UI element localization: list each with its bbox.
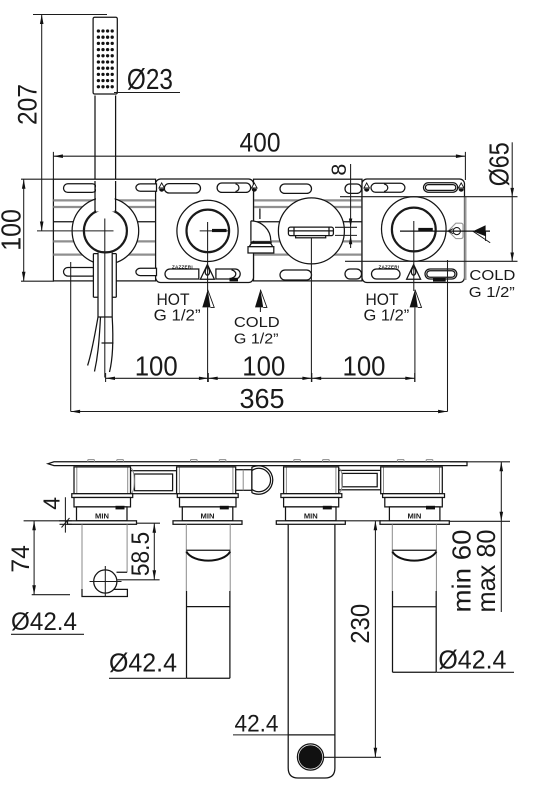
bottom slot H inner contour	[427, 271, 455, 277]
hose elbow plan	[235, 470, 252, 491]
dimension D23 leader	[114, 92, 180, 94]
top slot E	[280, 184, 312, 193]
hose end strands	[88, 317, 114, 372]
svg-text:G 1/2”: G 1/2”	[364, 308, 410, 325]
svg-text:Ø65: Ø65	[484, 142, 515, 186]
dimension D42.4 mid leader	[109, 677, 186, 679]
zazzeri mark circle 4	[418, 228, 433, 231]
dimension 365 arrows	[71, 410, 80, 413]
dimension 207 extension line top	[33, 14, 107, 16]
svg-text:100: 100	[135, 351, 178, 382]
svg-text:100: 100	[242, 351, 285, 382]
bottom slot F	[345, 269, 362, 279]
circle 3 center line	[310, 238, 312, 382]
up-arrow mark 3	[364, 183, 370, 192]
svg-text:G 1/2”: G 1/2”	[469, 285, 515, 301]
flow arrow line	[400, 230, 490, 232]
svg-text:ZAZZERI: ZAZZERI	[172, 264, 193, 269]
svg-text:Ø42.4: Ø42.4	[11, 608, 77, 636]
svg-text:8: 8	[327, 164, 351, 176]
dimension min60 max80 ext lines	[449, 462, 510, 522]
dimension 8 arrows	[349, 219, 352, 228]
COLD arrow mid	[255, 290, 263, 308]
dimension 400 extension lines	[53, 152, 465, 180]
valve body 4	[381, 467, 443, 494]
svg-text:365: 365	[240, 383, 285, 414]
HOT arrow left	[202, 290, 210, 308]
dimension 365 line	[71, 411, 448, 413]
top slot H	[424, 183, 458, 192]
shower handle over plate	[96, 182, 115, 202]
dimension 74 ext lines	[24, 521, 70, 595]
dimension 365 ext lines	[71, 260, 448, 412]
shower head nozzle dots	[97, 29, 114, 88]
stub marks above bar valve2	[191, 460, 226, 462]
dimension 400 arrows	[53, 154, 63, 158]
dimension 8 ext lines	[335, 227, 357, 235]
svg-text:MIN: MIN	[407, 512, 421, 521]
cylinder 4 handle recess	[392, 549, 436, 551]
dimension 8 line	[350, 164, 352, 248]
top slot C	[164, 184, 200, 193]
shower handle through ring	[96, 196, 115, 212]
valve body 3	[284, 467, 339, 494]
top slot D arc divider	[236, 184, 239, 192]
bottom slot D	[216, 269, 240, 279]
valve body inner wall lines	[77, 468, 440, 494]
wall plate bar	[48, 462, 467, 466]
svg-text:Ø42.4: Ø42.4	[438, 647, 506, 675]
valve circle 1 outer	[72, 198, 139, 265]
cylinder 3 cap joint	[288, 734, 335, 736]
dimension 230 line	[374, 521, 376, 758]
HOT arrow right	[410, 290, 418, 308]
dimension 100x3 line	[106, 377, 415, 379]
up-arrow mark 2	[252, 183, 258, 192]
funnel symbol square 4	[407, 265, 421, 280]
dimension min60 max80 arrows	[500, 462, 504, 472]
svg-text:400: 400	[240, 127, 281, 157]
funnel symbol square 2	[200, 265, 214, 280]
top slot G arc divider	[384, 184, 388, 192]
dimension 100 left arrows	[22, 179, 26, 189]
svg-text:MIN: MIN	[201, 512, 215, 521]
hand shower hose nut	[93, 254, 116, 298]
valve body 1	[74, 467, 131, 494]
top slot D	[217, 183, 251, 192]
dimension 230 ext	[323, 521, 381, 758]
dimension D65 arrows	[510, 188, 514, 197]
valve circle 2 inner	[187, 210, 230, 253]
dimension 100 left ext lines	[21, 179, 54, 281]
cylinder 2 joint	[187, 606, 230, 608]
stub marks above bar valve3	[294, 460, 329, 462]
cylinder 1 L-bracket	[82, 524, 127, 589]
valve circle 3 outer	[278, 198, 344, 264]
dimension 100 left line	[23, 179, 25, 281]
escutcheon square 2	[156, 179, 254, 283]
up-arrow mark 4	[458, 183, 464, 192]
top slot G	[371, 183, 405, 192]
body 3 round end	[339, 469, 343, 493]
svg-text:G 1/2”: G 1/2”	[234, 330, 279, 347]
dimension 230 arrows	[374, 521, 378, 531]
dimension 207 arrows	[40, 15, 44, 25]
center bar top edge	[53, 221, 362, 223]
mounting plate middle bracket	[254, 179, 363, 281]
cylinder 4	[392, 524, 436, 591]
dimension 58.5 ext line	[117, 523, 160, 580]
stub marks above bar valve1	[88, 460, 124, 462]
connector body 1-2	[131, 471, 177, 494]
zazzeri mark circle 2	[212, 229, 227, 232]
elbow gasket bar	[250, 241, 271, 243]
shower head body	[93, 17, 117, 94]
dimension 100x3 ticks	[106, 373, 415, 382]
dimension 4 line and ticks	[59, 497, 72, 532]
grey rails	[53, 200, 362, 254]
circle 3 handle bar	[288, 227, 333, 236]
stub marks above bar valve4	[397, 460, 432, 462]
top slot A	[64, 184, 97, 193]
bottom slot A	[64, 268, 97, 277]
svg-text:74: 74	[7, 545, 35, 573]
dimension 207 line	[41, 15, 43, 232]
cylinder 2 handle recess	[186, 549, 230, 551]
circle 4 crosshair	[413, 221, 415, 291]
circle 2 crosshair	[200, 222, 229, 291]
top slot B	[136, 184, 157, 191]
body 1 round end	[131, 469, 135, 494]
svg-text:COLD: COLD	[234, 314, 280, 331]
dimension D42.4 right leader	[436, 671, 514, 673]
svg-text:MIN: MIN	[95, 512, 109, 521]
svg-text:max 80: max 80	[471, 530, 501, 613]
elbow flange	[249, 243, 272, 246]
svg-text:COLD: COLD	[469, 268, 515, 284]
svg-text:Ø23: Ø23	[127, 64, 173, 96]
hand shower hose tube	[98, 254, 112, 317]
top slot H inner contour	[425, 185, 455, 191]
elbow between square2 and circle3	[251, 221, 271, 241]
spout outlet dot	[297, 744, 323, 770]
bottom slot D arc divider	[232, 270, 236, 278]
dimension 400 line	[53, 155, 465, 157]
bottom slot H	[425, 269, 457, 279]
shower handle	[95, 96, 116, 182]
valve circle 2 outer	[177, 200, 238, 261]
svg-text:ZAZZERI: ZAZZERI	[379, 264, 400, 269]
bottom slot E	[280, 270, 312, 280]
dimension D65 ext lines	[340, 197, 518, 262]
dimension 74 arrows	[32, 521, 36, 531]
hose outlet circle	[94, 570, 117, 593]
up-arrow mark 1	[159, 183, 165, 192]
svg-text:Ø42.4: Ø42.4	[109, 648, 177, 678]
mounting plate left bracket	[53, 179, 155, 281]
svg-text:100: 100	[0, 209, 27, 251]
bottom slot C	[165, 269, 199, 279]
flow arrow head	[473, 225, 486, 236]
valve circle 4 inner	[392, 208, 436, 252]
dimension 58.5 arrows	[153, 523, 157, 533]
black mark below slot D	[230, 278, 239, 282]
dimension D65 line	[511, 142, 513, 261]
flow pentagon tag	[448, 223, 463, 238]
square 4 right edge grey	[464, 197, 466, 280]
valve body 2	[177, 467, 236, 494]
bottom slot G	[372, 269, 401, 279]
dimension D42.4 left leader	[11, 633, 84, 635]
connector body 3-4	[339, 470, 381, 489]
dimension 74 line	[33, 521, 35, 595]
svg-text:G 1/2”: G 1/2”	[154, 308, 201, 325]
dimension 100x3 arrows	[106, 377, 115, 380]
valve circle 1 inner	[84, 209, 127, 252]
svg-text:MIN: MIN	[304, 512, 318, 521]
svg-text:HOT: HOT	[157, 291, 190, 309]
svg-text:42.4: 42.4	[235, 711, 279, 738]
dimension 58.5 line	[153, 523, 155, 580]
cylinder 2	[186, 524, 230, 591]
black mark below slot H4	[433, 278, 446, 282]
svg-text:58.5: 58.5	[127, 532, 155, 576]
top slot F	[345, 184, 362, 193]
cylinder 3 spout	[288, 524, 335, 778]
svg-text:230: 230	[345, 604, 375, 644]
circle 1 crosshair	[37, 219, 114, 378]
dimension min60 max80 line	[500, 462, 502, 612]
escutcheon square 4	[362, 179, 465, 283]
svg-text:HOT: HOT	[366, 291, 399, 309]
dimension 42.4 bottom leader	[233, 734, 288, 736]
valve circle 4 outer	[382, 197, 447, 262]
cylinder 4 joint	[393, 606, 437, 608]
svg-text:207: 207	[13, 84, 43, 125]
svg-text:100: 100	[343, 351, 386, 382]
bottom slot B	[136, 268, 157, 275]
svg-text:4: 4	[39, 497, 65, 510]
